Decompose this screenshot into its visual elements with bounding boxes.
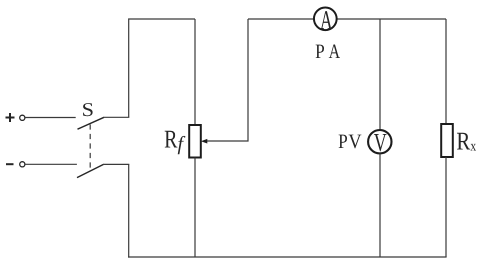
svg-text:V: V bbox=[348, 131, 361, 153]
terminal + sign bbox=[6, 113, 15, 122]
svg-text:x: x bbox=[470, 139, 476, 155]
wire from wiper to upper branch bbox=[207, 19, 248, 141]
terminal - sign bbox=[6, 163, 14, 165]
wire bottom rail bbox=[128, 256, 447, 258]
wire right rail bottom bbox=[445, 157, 447, 257]
voltmeter PV bbox=[368, 130, 391, 153]
ammeter PA bbox=[314, 7, 337, 30]
wire from + terminal to switch bbox=[25, 117, 76, 119]
svg-text:P: P bbox=[315, 41, 325, 63]
rheostat Rf body bbox=[189, 125, 201, 158]
wire below rheostat bbox=[194, 158, 196, 258]
svg-text:V: V bbox=[374, 128, 387, 157]
switch S bottom blade bbox=[77, 164, 104, 177]
svg-text:A: A bbox=[320, 5, 333, 35]
svg-text:R: R bbox=[164, 124, 177, 153]
wire voltmeter branch top bbox=[379, 19, 381, 130]
resistor Rx body bbox=[441, 124, 453, 157]
wire right rail top bbox=[445, 19, 447, 124]
terminal circle - bbox=[20, 162, 25, 167]
svg-text:f: f bbox=[178, 133, 186, 155]
svg-text:P: P bbox=[338, 131, 348, 153]
svg-text:R: R bbox=[456, 126, 470, 155]
wire left rail up bbox=[129, 19, 195, 117]
wire from bottom blade to left rail bbox=[103, 163, 129, 165]
wire ammeter to right rail bbox=[337, 18, 446, 20]
terminal circle + bbox=[20, 115, 25, 120]
wire top rail to ammeter bbox=[248, 18, 313, 20]
wire left rail bottom bbox=[128, 164, 130, 257]
svg-text:S: S bbox=[82, 100, 94, 121]
wire from - terminal to switch bbox=[25, 163, 77, 165]
wire voltmeter branch bottom bbox=[379, 154, 381, 258]
switch linkage dashed line bbox=[89, 124, 91, 169]
wire down to rheostat bbox=[194, 19, 196, 125]
rheostat wiper arrow bbox=[201, 139, 207, 144]
wire from top blade to left rail bbox=[104, 116, 130, 118]
svg-text:A: A bbox=[329, 41, 341, 63]
switch S top blade bbox=[78, 117, 105, 129]
